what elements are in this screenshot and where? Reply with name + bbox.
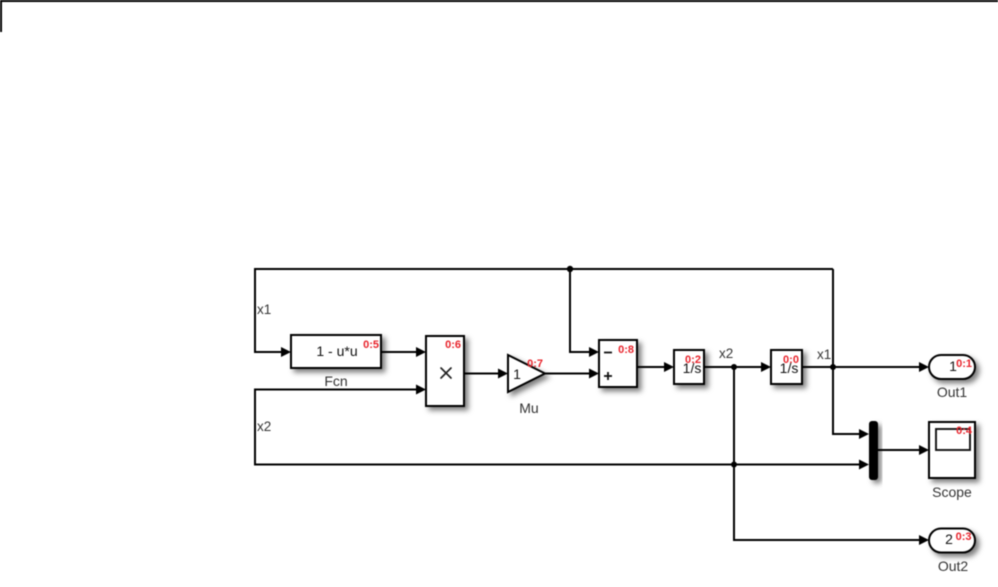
svg-text:Out2: Out2 [938,558,969,574]
svg-text:0:6: 0:6 [445,339,461,351]
svg-text:1: 1 [513,366,521,382]
svg-text:0:8: 0:8 [618,344,634,356]
svg-text:0:5: 0:5 [363,339,379,351]
svg-text:0:2: 0:2 [685,354,701,366]
svg-text:x1: x1 [257,302,271,317]
svg-text:0:3: 0:3 [956,531,972,543]
svg-text:1 - u*u: 1 - u*u [316,343,357,359]
svg-text:0:4: 0:4 [956,425,973,437]
svg-text:Scope: Scope [932,484,972,500]
svg-text:0:7: 0:7 [527,358,543,370]
svg-text:Mu: Mu [519,400,538,416]
svg-text:0:1: 0:1 [956,358,972,370]
svg-text:Out1: Out1 [937,384,968,400]
svg-text:2: 2 [945,531,953,547]
svg-text:x2: x2 [257,419,271,434]
svg-text:x1: x1 [817,347,831,362]
svg-text:0:0: 0:0 [783,354,799,366]
svg-text:Fcn: Fcn [324,373,347,389]
svg-text:x2: x2 [719,346,733,361]
